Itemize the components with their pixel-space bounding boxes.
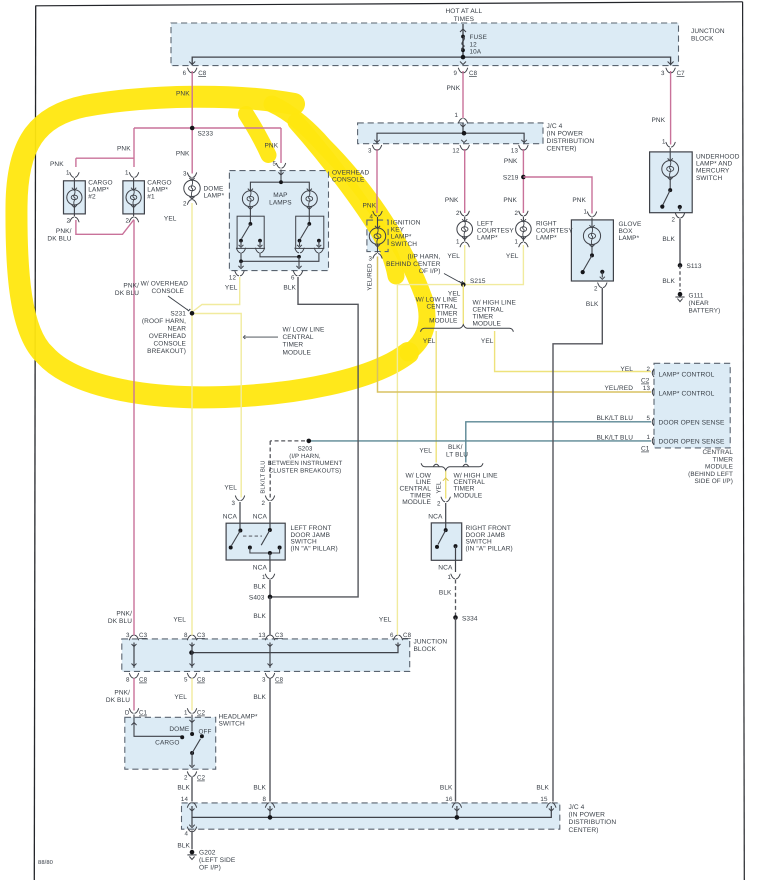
splice S233 [190,126,195,131]
svg-text:C8: C8 [198,70,207,77]
svg-text:DK BLU: DK BLU [115,290,139,297]
wire BLK S334 to lower J/C4 pin16 [455,618,457,802]
svg-text:2: 2 [456,210,460,217]
wire YEL S215 branch left to junction block pin6 C8 [397,285,463,636]
svg-text:KEY: KEY [391,227,405,234]
svg-text:(BEHIND LEFT: (BEHIND LEFT [688,471,733,478]
svg-text:(IN POWER: (IN POWER [547,131,584,138]
svg-text:YEL/RED: YEL/RED [604,385,633,392]
svg-text:OFF: OFF [199,729,212,736]
arrow into junction block top [460,29,466,32]
svg-text:BETWEEN INSTRUMENT: BETWEEN INSTRUMENT [268,460,343,467]
junction bus fuse node [461,55,466,60]
cargo lamp #2 [67,173,82,222]
lower J/C4 pin4 connector [187,827,196,832]
svg-text:LAMP*: LAMP* [477,235,498,242]
svg-text:LAMP*: LAMP* [147,187,168,194]
merge brace above right door jamb pin2 [421,463,483,470]
svg-text:W/ LOW LINE: W/ LOW LINE [283,327,325,334]
svg-text:LEFT: LEFT [477,221,493,228]
svg-text:OF I/P): OF I/P) [199,865,221,872]
splice S334 [453,615,458,620]
svg-text:2: 2 [437,501,441,508]
splice S403 [268,595,273,600]
svg-text:CENTRAL: CENTRAL [283,334,314,341]
lower J/C4 pin16 entry [456,806,458,817]
svg-text:2: 2 [183,201,187,208]
page border left [34,6,35,881]
svg-text:PNK/: PNK/ [123,283,139,290]
wire PNK J/C4 pin13 to right courtesy lamp [522,149,524,213]
svg-text:FUSE: FUSE [470,34,487,41]
svg-text:5: 5 [646,415,650,422]
splice S219 [521,175,526,180]
svg-text:C1: C1 [641,446,650,453]
svg-text:BLK: BLK [662,278,675,285]
right front door jamb switch [435,497,460,579]
svg-text:JUNCTION: JUNCTION [414,639,448,646]
wire YEL S215 down to split [462,285,464,325]
junction block internal bus [192,57,670,65]
svg-text:BLK/LT BLU: BLK/LT BLU [596,415,633,422]
svg-text:16: 16 [445,796,453,803]
svg-text:J/C 4: J/C 4 [547,123,563,130]
wire PNK/DK BLU through junction block [133,643,135,668]
svg-text:2: 2 [125,218,129,225]
arrow annotation to S231 [168,296,187,310]
wire BLK map lamps pin6 to S403 [272,277,358,597]
wire YEL/RED ignition switch pin3 to CTM lamp control pin13 [378,257,652,393]
svg-text:DISTRIBUTION: DISTRIBUTION [569,819,617,826]
wire YEL junction block bus to headlamp switch pin1 [191,678,193,711]
svg-text:DOME: DOME [169,726,189,733]
wire YEL split branch high-line to CTM lamp control pin2 [495,331,651,372]
svg-text:2: 2 [66,218,70,225]
svg-text:NCA: NCA [253,514,268,521]
wire PNK J/C4 pin3 to ignition key lamp switch [376,149,378,213]
svg-text:1: 1 [454,112,458,119]
svg-text:W/ HIGH LINE: W/ HIGH LINE [473,300,517,307]
svg-text:MERCURY: MERCURY [696,168,730,175]
svg-text:S233: S233 [198,131,214,138]
junction block mid pin8 C3 connector [187,635,196,646]
svg-text:MODULE: MODULE [402,499,431,506]
wire BLK through junction block 13 to 3 [269,643,271,668]
splice S231 [190,311,195,316]
svg-text:(LEFT SIDE: (LEFT SIDE [199,857,236,864]
highlighter tail [246,114,269,155]
svg-text:BOX: BOX [619,228,634,235]
svg-text:BLK/: BLK/ [448,444,463,451]
svg-text:COURTESY: COURTESY [477,228,514,235]
svg-text:C1: C1 [139,710,148,717]
svg-text:BLK: BLK [536,785,549,792]
split brace below S215 [421,325,514,332]
junction block middle internal bus [192,643,399,653]
svg-text:YEL: YEL [419,448,432,455]
svg-text:PNK: PNK [504,158,518,165]
svg-text:YEL: YEL [481,338,494,345]
svg-text:LT BLU: LT BLU [446,451,468,458]
svg-text:#2: #2 [88,194,96,201]
svg-text:SWITCH: SWITCH [219,721,245,728]
svg-text:DOOR OPEN SENSE: DOOR OPEN SENSE [659,420,725,427]
svg-text:CARGO: CARGO [155,740,179,747]
svg-text:BLK: BLK [253,584,266,591]
svg-text:PNK/: PNK/ [114,690,130,697]
cargo lamp #2 box border [64,181,86,214]
svg-text:1: 1 [262,574,266,581]
svg-text:S334: S334 [462,616,478,623]
svg-text:(IN "A" PILLAR): (IN "A" PILLAR) [291,545,338,552]
map lamp right [301,189,317,210]
svg-text:BLK: BLK [177,843,190,850]
svg-text:CARGO: CARGO [147,180,171,187]
svg-text:C3: C3 [275,632,284,639]
svg-text:DK BLU: DK BLU [108,618,132,625]
svg-text:S403: S403 [249,595,265,602]
svg-text:2: 2 [184,775,188,782]
svg-text:MODULE: MODULE [705,464,733,471]
lower J/C4 pin8 connector [265,803,274,808]
map lamp switch right box [296,216,324,248]
svg-text:PNK: PNK [265,143,279,150]
highlighter loop [16,97,408,398]
svg-text:4: 4 [369,214,373,221]
wire BLK junction block pin3C8 to lower J/C4 pin8 [269,678,271,802]
svg-text:G202: G202 [199,850,216,857]
headlamp switch box fill [125,717,216,769]
splice S203 [307,439,312,444]
ignition key lamp switch box border [367,220,388,252]
junction block (middle) box border [122,639,410,672]
svg-text:1: 1 [125,170,129,177]
svg-text:LAMP* AND: LAMP* AND [696,161,733,168]
svg-text:CONSOLE: CONSOLE [154,341,187,348]
svg-text:LAMP*: LAMP* [536,235,557,242]
J/C4 bus node [462,131,467,136]
svg-text:MAP: MAP [273,192,287,199]
svg-text:TIMER: TIMER [283,342,304,349]
svg-text:J/C 4: J/C 4 [569,804,585,811]
svg-text:YEL: YEL [174,694,187,701]
lower J/C4 internal bus [192,806,551,817]
svg-text:PNK: PNK [176,91,190,98]
svg-text:5: 5 [184,677,188,684]
svg-text:CONSOLE: CONSOLE [332,177,365,184]
wire BLK S403 to junction block pin13 [269,597,271,636]
svg-text:3: 3 [262,677,266,684]
J/C 4 lower box border [182,803,560,829]
lower J/C4 pin4 exit [191,817,193,826]
svg-text:BLK: BLK [440,785,453,792]
underhood lamp and mercury switch box fill [650,152,693,213]
svg-text:C3: C3 [139,632,148,639]
svg-text:1: 1 [646,434,650,441]
junction block (top) box border [171,23,679,66]
svg-text:(I/P HARN,: (I/P HARN, [407,254,440,261]
right front door jamb switch box border [431,523,461,560]
svg-text:PNK/: PNK/ [116,611,132,618]
svg-text:S231: S231 [170,311,186,318]
wire PNK S233 down to cargo lamp 1 [133,128,135,167]
svg-text:MODULE: MODULE [429,318,458,325]
glove box lamp box fill [571,220,613,281]
highlighter diagonal [272,104,427,353]
svg-text:BLK: BLK [283,285,296,292]
arrow fuse wire into bus exit [460,62,466,65]
svg-text:YEL: YEL [173,617,186,624]
svg-text:TIMER: TIMER [437,311,458,318]
svg-text:(NEAR: (NEAR [689,300,710,307]
right courtesy lamp [516,211,532,247]
wire BLK left door jamb pin1 to S403 [269,580,271,597]
map lamp switch right [295,208,324,253]
svg-text:MODULE: MODULE [283,349,312,356]
svg-text:10A: 10A [470,49,482,56]
map lamps feed [250,163,309,190]
svg-text:YEL: YEL [379,617,392,624]
svg-text:1: 1 [184,710,188,717]
svg-text:CARGO: CARGO [88,180,112,187]
svg-text:JUNCTION: JUNCTION [691,28,725,35]
svg-text:LAMPS: LAMPS [269,200,292,207]
lower J/C4 pin14 connector [187,803,196,808]
map lamp switch link wires [235,253,319,276]
J/C 4 upper box fill [358,123,543,144]
dome lamp [184,173,200,205]
svg-text:BLOCK: BLOCK [691,36,714,43]
arrow YEL merge [443,478,449,481]
wire YEL right courtesy lamp pin1 to S215 [463,245,523,285]
svg-text:3: 3 [661,70,665,77]
svg-text:S203: S203 [298,446,313,453]
svg-text:15: 15 [540,796,548,803]
svg-text:BLK: BLK [253,613,266,620]
svg-text:C2: C2 [197,775,206,782]
J/C4 pin3 connector [372,145,381,150]
svg-text:BLK: BLK [253,694,266,701]
right front door jamb switch box fill [431,523,461,560]
svg-text:C8: C8 [275,677,284,684]
svg-text:C2: C2 [197,710,206,717]
svg-text:PNK: PNK [447,85,461,92]
wire BLK/LT BLU dashed to left door jamb pin2 [269,441,271,498]
svg-text:(I/P HARN,: (I/P HARN, [289,453,321,460]
svg-text:LAMP*: LAMP* [204,193,225,200]
svg-text:PNK: PNK [117,146,131,153]
svg-text:NCA: NCA [223,514,238,521]
underhood lamp and mercury switch [660,142,684,217]
wire PNK S219 to glove box lamp pin1 [523,177,592,214]
wire YEL through junction block middle [191,643,193,668]
svg-text:LAMP* CONTROL: LAMP* CONTROL [659,391,715,398]
headlamp switch box border [125,717,216,769]
svg-text:TIMES: TIMES [454,16,475,23]
svg-text:(IN "A" PILLAR): (IN "A" PILLAR) [466,545,513,552]
svg-text:IGNITION: IGNITION [391,220,421,227]
J/C 4 upper box border [358,123,543,144]
lower J/C4 pin8 entry [269,806,271,817]
svg-text:1: 1 [662,139,666,146]
svg-text:YEL: YEL [620,366,633,373]
arrow J/C4 exit 12 [461,140,467,143]
svg-text:CENTER): CENTER) [569,827,599,834]
wire PNK branch to cargo lamp 2 [76,157,134,159]
wire PNK junction block pin9 to J/C4 pin1 [462,71,464,118]
junction block pin3 connector [666,68,675,73]
wire BLK glove box lamp pin2 to lower J/C4 pin15 [553,288,602,802]
junction block pin6 connector [188,68,197,73]
svg-text:14: 14 [181,796,189,803]
lower J/C4 bus node 16 [455,815,460,820]
svg-text:CENTRAL: CENTRAL [473,307,504,314]
svg-text:W/ LOW LINE: W/ LOW LINE [416,297,458,304]
junction block mid pin6 C8 connector [393,635,402,646]
headlamp switch [129,709,204,777]
svg-text:LAMP* CONTROL: LAMP* CONTROL [659,372,715,379]
svg-text:PNK: PNK [652,117,666,124]
svg-text:8: 8 [262,796,266,803]
page border right [743,2,745,880]
wire PNK/DK BLU cargo lamps to junction block pin3 C3 [133,220,135,636]
central timer module box fill [654,363,730,448]
svg-text:PNK: PNK [445,197,459,204]
central timer module box border [654,363,730,448]
J/C4 pin1 connector [458,119,467,128]
page border top [36,2,743,6]
svg-text:3: 3 [231,500,235,507]
svg-text:13: 13 [511,148,519,155]
svg-text:YEL: YEL [447,253,460,260]
ignition key lamp switch box fill [367,220,388,252]
wire PNK/DK BLU cargo lamp2 pin2 link [76,220,134,235]
svg-text:BLOCK: BLOCK [414,646,437,653]
glove box lamp [581,212,607,288]
svg-text:YEL: YEL [423,338,436,345]
arrow J/C4 exit 13 [521,140,527,143]
cargo lamp #1 box fill [123,181,144,214]
cargo lamp #1 box border [123,181,144,214]
junction block (middle) box fill [122,639,410,672]
svg-text:C3: C3 [197,632,206,639]
overhead console box border [229,171,328,271]
svg-text:12: 12 [452,148,460,155]
wire PNK/DK BLU junction block pin8 to headlamp switch pinD [133,678,135,711]
svg-text:6: 6 [291,275,295,282]
junction block mid pin8C8 connector [129,664,138,679]
highlighter hook descent [296,122,396,276]
svg-text:CENTRAL: CENTRAL [426,304,457,311]
wire BLK/LT BLU S203 dashed breakout [270,440,305,442]
svg-text:NEAR: NEAR [168,326,187,333]
svg-text:2: 2 [646,366,650,373]
wire YEL merge to right door jamb switch pin2 [445,471,447,499]
svg-text:W/ OVERHEAD: W/ OVERHEAD [141,281,189,288]
glove box lamp box border [571,220,613,281]
arrow bus left exit [189,62,195,65]
svg-text:2: 2 [594,286,598,293]
left front door jamb switch box fill [226,523,285,560]
wire BLK lower J/C4 pin4 to G202 [191,831,193,850]
svg-text:G111: G111 [689,293,704,300]
wire YEL split branch low-line CTM [435,331,437,463]
svg-text:YEL: YEL [436,481,443,493]
overhead console box fill [229,171,328,271]
svg-text:PNK/: PNK/ [56,228,72,235]
svg-text:1: 1 [514,239,518,246]
svg-text:YEL: YEL [506,253,519,260]
svg-text:C8: C8 [197,677,206,684]
svg-text:BLK: BLK [662,236,675,243]
svg-text:MODULE: MODULE [473,321,502,328]
cargo lamp #2 box fill [64,181,86,214]
ignition key lamp switch [369,211,385,258]
svg-text:OVERHEAD: OVERHEAD [332,170,369,177]
junction block mid pin13 C3 connector [265,635,274,646]
svg-text:BLK: BLK [586,301,599,308]
wire PNK junction block pin3 to underhood switch pin1 [670,71,672,145]
svg-text:SWITCH: SWITCH [696,175,722,182]
svg-text:BLK: BLK [177,785,190,792]
svg-text:6: 6 [183,70,187,77]
svg-text:CENTRAL: CENTRAL [702,449,733,456]
map lamp switch left [236,208,264,253]
svg-text:RIGHT: RIGHT [536,221,557,228]
svg-text:8: 8 [126,677,130,684]
arrow lower J/C4 pin15 entry [549,809,554,812]
wire fuse feed from HOT AT ALL TIMES [462,24,464,57]
svg-text:DK BLU: DK BLU [106,697,130,704]
CTM pin13 connector [652,388,654,396]
svg-text:OVERHEAD: OVERHEAD [149,333,186,340]
svg-text:HOT AT ALL: HOT AT ALL [446,8,483,15]
wire BLK S113 dashed to G111 [679,265,681,290]
svg-text:13: 13 [643,385,651,392]
svg-text:S215: S215 [470,278,486,285]
svg-text:S219: S219 [503,175,519,182]
cargo lamp #1 [126,173,141,222]
svg-text:YEL: YEL [224,485,237,492]
ground G202 [190,850,195,855]
junction block (top) box fill [171,23,679,66]
svg-text:YEL: YEL [225,285,238,292]
svg-text:2: 2 [671,217,675,224]
ground G111 [678,292,683,297]
svg-text:DK BLU: DK BLU [47,235,71,242]
svg-text:C7: C7 [677,70,686,77]
wire PNK junction block pin6 to S233 to dome lamp pin3 [191,71,193,174]
svg-text:C2: C2 [641,378,650,385]
wire BLK/LT BLU S203 to CTM door open sense pin1 [309,440,651,442]
svg-text:BLK: BLK [439,590,452,597]
arrow lower J/C4 pin16 entry [454,809,459,812]
svg-text:6: 6 [390,632,394,639]
svg-text:BLK/LT BLU: BLK/LT BLU [260,460,267,493]
svg-text:SIDE OF I/P): SIDE OF I/P) [695,478,733,485]
svg-text:2: 2 [261,500,265,507]
arrow J/C4 exit 3 [374,140,380,143]
svg-text:13: 13 [258,632,266,639]
J/C4 pin13 connector [519,145,528,150]
svg-text:12: 12 [229,275,237,282]
svg-text:4: 4 [184,831,188,838]
junction block mid pin3 C3 connector [129,635,138,646]
junction block mid pin3C8 connector [265,664,274,679]
svg-text:DOME: DOME [204,186,224,193]
left front door jamb switch [229,496,282,579]
wire BLK underhood switch pin2 to S113 [679,219,681,266]
